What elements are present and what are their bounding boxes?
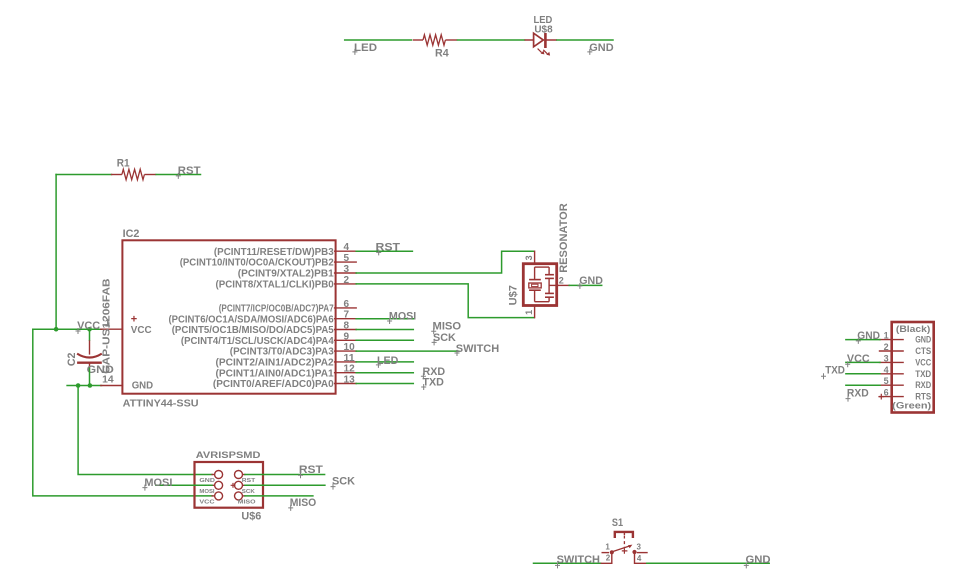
svg-text:RESONATOR: RESONATOR bbox=[558, 203, 570, 273]
svg-text:3: 3 bbox=[884, 353, 889, 363]
wire net GND from resonator pin 2 bbox=[569, 284, 602, 286]
pin stub IC2 pin 9 (PA4) bbox=[335, 339, 357, 341]
wire net VCC horizontal bbox=[33, 328, 102, 330]
pin stub FTDI pin 6 (RTS) bbox=[880, 396, 904, 398]
crystal element inside U$7 bbox=[529, 267, 549, 302]
label origin cross bbox=[376, 249, 381, 255]
label origin cross bbox=[845, 361, 850, 367]
svg-text:(PCINT3/T0/ADC3)PA3: (PCINT3/T0/ADC3)PA3 bbox=[230, 347, 334, 358]
pin stub IC2 pin 2 (PB0) bbox=[335, 283, 357, 285]
svg-text:VCC: VCC bbox=[915, 357, 931, 367]
svg-text:GND: GND bbox=[857, 330, 880, 342]
svg-text:(Green): (Green) bbox=[892, 400, 931, 411]
svg-text:(Black): (Black) bbox=[896, 324, 930, 335]
label origin cross bbox=[421, 384, 426, 390]
svg-text:RST: RST bbox=[178, 165, 201, 177]
svg-text:ATTINY44-SSU: ATTINY44-SSU bbox=[123, 397, 199, 409]
wire net MOSI to U$6 bbox=[156, 484, 212, 486]
svg-text:1: 1 bbox=[884, 331, 889, 341]
label origin cross bbox=[76, 328, 81, 334]
resonator U$7 box bbox=[523, 264, 556, 306]
svg-text:U$7: U$7 bbox=[508, 285, 520, 305]
pin circle U$6 (left, y=485.3) bbox=[215, 481, 223, 489]
capacitor elements inside U$7 bbox=[545, 267, 557, 302]
pin stub IC2 pin 12 (PA1) bbox=[335, 372, 357, 374]
junction GND/C2 bbox=[88, 383, 93, 388]
svg-text:(PCINT4/T1/SCL/USCK/ADC4)PA4: (PCINT4/T1/SCL/USCK/ADC4)PA4 bbox=[181, 336, 334, 347]
LED U$8 bbox=[525, 33, 558, 56]
pin stub IC2 pin 6 (PA7) bbox=[335, 307, 357, 309]
pin stub U$7 pin 2 (right) bbox=[558, 284, 569, 286]
pin stub IC2 pin 3 (PB1) bbox=[335, 272, 357, 274]
label origin cross bbox=[288, 505, 293, 511]
svg-text:(PCINT1/AIN0/ADC1)PA1: (PCINT1/AIN0/ADC1)PA1 bbox=[216, 368, 335, 379]
svg-text:SWITCH: SWITCH bbox=[557, 554, 600, 566]
wire net GND horizontal bbox=[67, 385, 101, 387]
pin stub ticks U$6 row y=485.3 bbox=[212, 484, 215, 486]
svg-text:GND: GND bbox=[589, 42, 613, 54]
svg-text:GND: GND bbox=[915, 335, 931, 345]
wire net VCC vertical from R1 bbox=[55, 175, 57, 330]
pin stub IC2 pin 4 (PB3) bbox=[335, 250, 357, 252]
pin stub FTDI pin 3 (VCC) bbox=[880, 361, 904, 363]
wire net VCC to R1 bbox=[56, 174, 111, 176]
label origin cross bbox=[856, 338, 861, 344]
svg-text:S1: S1 bbox=[612, 517, 623, 529]
svg-text:RXD: RXD bbox=[915, 380, 931, 390]
svg-text:12: 12 bbox=[344, 364, 356, 375]
svg-text:GND: GND bbox=[579, 275, 603, 287]
label origin cross bbox=[431, 328, 436, 334]
svg-text:(PCINT9/XTAL2)PB1: (PCINT9/XTAL2)PB1 bbox=[238, 269, 334, 280]
svg-text:2: 2 bbox=[559, 276, 564, 286]
svg-text:9: 9 bbox=[344, 331, 350, 342]
wire net VCC down to ISP header bbox=[33, 329, 212, 496]
wire C2 bottom lead to GND bbox=[89, 368, 91, 385]
label origin cross bbox=[176, 173, 181, 179]
wire net RXD from pin 12 bbox=[356, 372, 413, 374]
svg-text:4: 4 bbox=[884, 365, 889, 375]
pin circle U$6 (left, y=495.9) bbox=[215, 492, 223, 500]
capacitor C2 bbox=[77, 340, 102, 368]
pin stub U$7 pin 3 (top) bbox=[534, 251, 536, 262]
svg-text:3: 3 bbox=[637, 543, 642, 552]
svg-text:5: 5 bbox=[344, 253, 350, 264]
wire net TXD to FTDI pin 4 bbox=[846, 373, 880, 375]
pin stub IC2 pin 11 (PA2) bbox=[335, 361, 357, 363]
label origin cross bbox=[331, 484, 336, 490]
label origin cross bbox=[821, 373, 826, 379]
svg-text:SWITCH: SWITCH bbox=[456, 343, 499, 355]
svg-text:RXD: RXD bbox=[847, 388, 869, 400]
wire net GND down to ISP header bbox=[78, 386, 212, 475]
label origin cross bbox=[455, 350, 460, 356]
svg-text:14: 14 bbox=[102, 374, 114, 385]
pin stub ticks U$6 row y=495.9 bbox=[212, 495, 215, 497]
svg-text:(PCINT10/INT0/OC0A/CKOUT)PB2: (PCINT10/INT0/OC0A/CKOUT)PB2 bbox=[180, 258, 334, 269]
wire net VCC to FTDI pin 3 bbox=[846, 361, 880, 363]
label origin cross bbox=[846, 396, 851, 402]
svg-text:10: 10 bbox=[344, 342, 356, 353]
svg-text:+: + bbox=[131, 314, 137, 326]
pin stub FTDI pin 4 (TXD) bbox=[880, 373, 904, 375]
svg-text:VCC: VCC bbox=[131, 325, 152, 336]
svg-text:MOSI: MOSI bbox=[144, 477, 172, 489]
wire net MISO from U$6 bbox=[245, 495, 313, 497]
svg-text:4: 4 bbox=[637, 554, 642, 563]
svg-text:(PCINT5/OC1B/MISO/DO/ADC5)PA5: (PCINT5/OC1B/MISO/DO/ADC5)PA5 bbox=[172, 325, 334, 336]
svg-text:GND: GND bbox=[746, 554, 771, 566]
wire net SWITCH from pin 10 bbox=[356, 350, 459, 352]
svg-text:R4: R4 bbox=[435, 47, 450, 59]
pin stub U$7 pin 1 (bottom) bbox=[534, 307, 536, 318]
wire net GND to FTDI pin 1 bbox=[846, 339, 880, 341]
svg-text:13: 13 bbox=[344, 375, 356, 386]
wire net SWITCH to S1 bbox=[534, 562, 601, 564]
FTDI connector box bbox=[892, 322, 934, 413]
svg-text:SCK: SCK bbox=[332, 476, 355, 488]
pin stub ticks U$6 row y=474.5 bbox=[212, 474, 215, 476]
svg-text:SCK: SCK bbox=[242, 489, 255, 495]
switch S1 bbox=[601, 532, 648, 563]
junction VCC/C2 bbox=[87, 327, 92, 332]
svg-text:(PCINT2/AIN1/ADC2)PA2: (PCINT2/AIN1/ADC2)PA2 bbox=[216, 358, 335, 369]
cross at RTS pin bbox=[878, 394, 884, 400]
pin circle U$6 (right, y=495.9) bbox=[235, 492, 243, 500]
svg-text:GND: GND bbox=[132, 381, 153, 392]
svg-text:MISO: MISO bbox=[433, 321, 462, 333]
svg-text:RST: RST bbox=[242, 478, 256, 484]
pin circle U$6 (right, y=474.5) bbox=[235, 471, 243, 479]
svg-text:7: 7 bbox=[344, 310, 350, 321]
svg-text:MOSI: MOSI bbox=[389, 310, 416, 322]
svg-text:5: 5 bbox=[884, 376, 889, 386]
svg-text:(PCINT7/ICP/OC0B/ADC7)PA7: (PCINT7/ICP/OC0B/ADC7)PA7 bbox=[219, 304, 334, 315]
wire net GND (right of LED) bbox=[557, 39, 613, 41]
label origin cross bbox=[298, 472, 303, 478]
wire net TXD from pin 13 bbox=[356, 383, 413, 385]
svg-text:VCC: VCC bbox=[77, 320, 100, 332]
wire net SCK from U$6 bbox=[245, 484, 325, 486]
svg-text:11: 11 bbox=[344, 353, 356, 364]
wire net RST at R1 bbox=[156, 174, 200, 176]
label origin cross bbox=[387, 318, 392, 324]
op-amp? no: IC2 ATTINY44-SSU box bbox=[122, 240, 335, 393]
wire net MISO from pin 8 bbox=[356, 329, 413, 331]
svg-text:(PCINT6/OC1A/SDA/MOSI/ADC6)PA6: (PCINT6/OC1A/SDA/MOSI/ADC6)PA6 bbox=[169, 314, 335, 325]
pin stub IC2 pin 13 (PA0) bbox=[335, 383, 357, 385]
label origin cross bbox=[744, 562, 749, 568]
svg-text:1: 1 bbox=[605, 543, 610, 552]
svg-text:8: 8 bbox=[344, 321, 350, 332]
pin stub FTDI pin 5 (RXD) bbox=[880, 384, 904, 386]
svg-text:VCC: VCC bbox=[847, 353, 870, 365]
svg-text:MOSI: MOSI bbox=[199, 489, 215, 495]
svg-text:1: 1 bbox=[524, 310, 534, 315]
svg-text:2: 2 bbox=[344, 275, 350, 286]
pin stub IC2 pin 14 GND bbox=[101, 385, 123, 387]
pin circle U$6 (right, y=485.3) bbox=[235, 481, 243, 489]
svg-text:GND: GND bbox=[199, 478, 215, 484]
pin stub IC2 pin 7 (PA6) bbox=[335, 318, 357, 320]
svg-text:4: 4 bbox=[344, 242, 350, 253]
svg-text:RTS: RTS bbox=[915, 392, 931, 402]
label origin cross bbox=[555, 562, 560, 568]
svg-text:RST: RST bbox=[299, 464, 323, 476]
svg-text:LED: LED bbox=[354, 42, 377, 54]
pin stub IC2 pin 10 (PA3) bbox=[335, 350, 357, 352]
wire net XTAL1: pin2 to resonator pin 1 bbox=[356, 284, 534, 318]
wire net MOSI from pin 7 bbox=[356, 318, 414, 320]
svg-text:R1: R1 bbox=[117, 157, 130, 169]
label origin cross bbox=[142, 485, 147, 491]
svg-text:AVRISPSMD: AVRISPSMD bbox=[196, 450, 261, 461]
label origin cross bbox=[587, 49, 592, 55]
svg-text:VCC: VCC bbox=[199, 499, 214, 505]
label origin cross bbox=[577, 283, 582, 289]
svg-text:3: 3 bbox=[524, 255, 534, 260]
pin stub IC2 pin 5 (PB2) bbox=[335, 261, 357, 263]
svg-text:MISO: MISO bbox=[290, 497, 317, 509]
wire net RXD to FTDI pin 5 bbox=[846, 384, 880, 386]
svg-text:2: 2 bbox=[884, 342, 889, 352]
svg-text:3: 3 bbox=[344, 264, 350, 275]
junction VCC/R1 bbox=[54, 327, 59, 332]
wire net RST from U$6 bbox=[245, 474, 325, 476]
label origin cross bbox=[432, 339, 437, 345]
label origin cross bbox=[376, 362, 381, 368]
wire net RST from pin 4 bbox=[356, 250, 412, 252]
svg-text:CAP-US1206FAB: CAP-US1206FAB bbox=[100, 278, 112, 374]
svg-text:U$8: U$8 bbox=[534, 24, 552, 35]
pin stub IC2 pin 8 (PA5) bbox=[335, 329, 357, 331]
wire net XTAL2: pin3 to resonator pin 3 bbox=[356, 251, 534, 273]
svg-text:TXD: TXD bbox=[825, 365, 845, 377]
svg-text:(PCINT11/RESET/DW)PB3: (PCINT11/RESET/DW)PB3 bbox=[214, 247, 334, 258]
svg-text:TXD: TXD bbox=[915, 369, 931, 379]
svg-text:2: 2 bbox=[606, 553, 611, 562]
wire C2 top lead bbox=[89, 329, 91, 340]
wire net LED from pin 11 bbox=[356, 361, 413, 363]
wire net between R4 and LED U$8 bbox=[458, 39, 525, 41]
wire net SCK from pin 9 bbox=[356, 339, 413, 341]
svg-text:MISO: MISO bbox=[238, 499, 257, 505]
wire net GND from S1 bbox=[647, 562, 769, 564]
svg-text:C2: C2 bbox=[66, 353, 78, 367]
resistor R4 bbox=[413, 39, 423, 41]
svg-text:U$6: U$6 bbox=[241, 510, 261, 522]
ISP header U$6 box bbox=[195, 462, 264, 508]
wire net LED (left of R4) bbox=[345, 39, 412, 41]
svg-text:(PCINT0/AREF/ADC0)PA0: (PCINT0/AREF/ADC0)PA0 bbox=[213, 379, 334, 390]
pin stub FTDI pin 1 (GND) bbox=[880, 339, 904, 341]
svg-text:(PCINT8/XTAL1/CLKI)PB0: (PCINT8/XTAL1/CLKI)PB0 bbox=[216, 280, 335, 291]
label origin cross bbox=[352, 49, 357, 55]
pin circle U$6 (left, y=474.5) bbox=[215, 471, 223, 479]
pin stub IC2 pin 1 VCC bbox=[101, 328, 123, 330]
pin stub FTDI pin 2 (CTS) bbox=[880, 350, 904, 352]
junction GND/ISP bbox=[76, 383, 81, 388]
origin cross U$6 bbox=[231, 483, 236, 488]
svg-text:IC2: IC2 bbox=[123, 228, 140, 240]
svg-text:CTS: CTS bbox=[915, 346, 931, 356]
svg-text:6: 6 bbox=[884, 388, 889, 398]
svg-text:6: 6 bbox=[344, 299, 350, 310]
resistor R1 bbox=[111, 174, 122, 176]
label origin cross bbox=[421, 373, 426, 379]
